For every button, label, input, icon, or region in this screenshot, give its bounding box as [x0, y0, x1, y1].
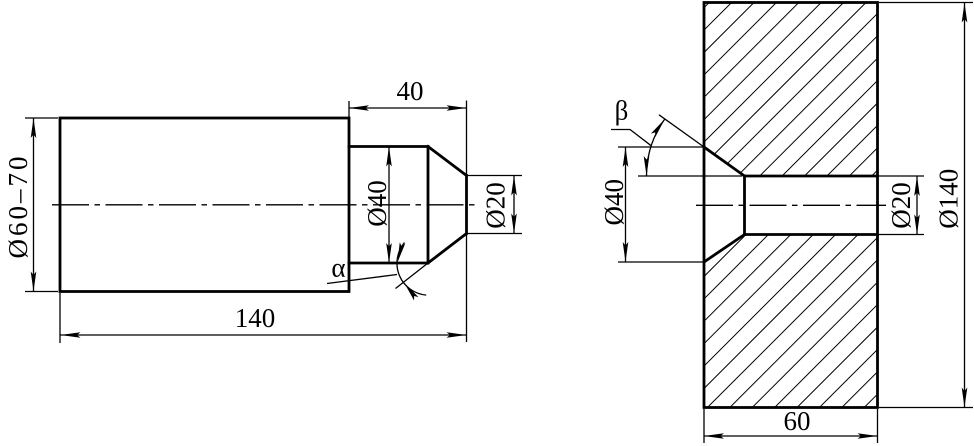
dimension 60 arrow right	[858, 433, 878, 439]
dimension D60-70: dimension line	[33, 118, 35, 292]
right view: block outline	[704, 3, 878, 408]
dimension D60-70 arrow bottom	[31, 272, 37, 292]
dimension 140 arrow right	[447, 332, 467, 338]
left view: cone tip	[428, 147, 467, 264]
dimension 60 arrow left	[704, 433, 724, 439]
dimension D20 right view: dimension line	[916, 176, 918, 235]
angle beta arrow lower	[644, 156, 650, 176]
svg-text:β: β	[615, 96, 629, 126]
svg-text:60: 60	[784, 406, 811, 436]
dimension D40 right view arrow bottom	[623, 242, 629, 262]
dimension D20 left view arrow bottom	[511, 214, 517, 234]
left view: small cylinder D40	[349, 147, 428, 264]
dimension D20 right view arrow bottom	[914, 215, 920, 235]
left view: centerline (axis)	[52, 204, 479, 206]
angle alpha: dimension arc	[397, 243, 426, 296]
angle beta: leader line	[611, 130, 651, 146]
dimension 60: extension lines	[704, 409, 878, 443]
svg-text:Ø60–70: Ø60–70	[3, 154, 33, 259]
svg-text:140: 140	[235, 303, 276, 333]
angle alpha arrow lower	[402, 281, 419, 300]
svg-text:Ø20: Ø20	[886, 182, 916, 229]
dimension D20 left view: dimension line	[513, 176, 515, 234]
dimension D20 right view: extension lines	[879, 176, 924, 235]
right view: countersink taper edges	[704, 147, 745, 262]
dimension D40 left view arrow bottom	[386, 243, 392, 263]
angle alpha arrow upper	[395, 242, 405, 263]
shared extension line at shaft tip	[466, 101, 468, 343]
dimension D140: extension lines	[879, 3, 973, 408]
angle beta arrow upper	[651, 117, 667, 137]
right view: hole bore edges	[745, 176, 878, 235]
dimension D40 right view arrow top	[623, 147, 629, 167]
dimension 40 arrow left	[349, 105, 369, 111]
dimension 40: extension line left	[348, 101, 350, 117]
dimension D40 left view arrow top	[386, 147, 392, 167]
dimension D20 right view arrow top	[914, 176, 920, 196]
dimension D140 arrow bottom	[962, 388, 968, 408]
angle alpha: leader line	[327, 275, 397, 284]
dimension D60-70 arrow top	[31, 118, 37, 138]
dimension D140: dimension line	[964, 3, 966, 408]
svg-text:Ø40: Ø40	[599, 179, 629, 226]
angle beta: taper line extension	[659, 115, 704, 147]
dimension D40 right view: extension lines	[618, 147, 703, 262]
dimension D20 left view: extension lines	[468, 176, 522, 234]
dimension D60-70: extension lines	[25, 118, 58, 292]
dimension D40 left view: dimension line	[388, 147, 390, 264]
dimension D140 arrow top	[962, 3, 968, 23]
dimension 140: dimension line	[61, 334, 467, 336]
dimension D40 right view: dimension line	[625, 147, 627, 262]
dimension 40: dimension line	[349, 107, 467, 109]
dimension 40 arrow right	[447, 105, 467, 111]
right view: centerline (hole axis)	[696, 204, 886, 206]
svg-text:Ø40: Ø40	[362, 180, 392, 227]
angle alpha: cone line extension	[396, 263, 429, 289]
dimension 140: extension line left	[59, 293, 61, 343]
svg-text:40: 40	[397, 76, 424, 106]
left view: stepped shaft outline	[60, 118, 349, 292]
svg-text:Ø140: Ø140	[933, 169, 963, 229]
dimension 60: dimension line	[704, 435, 878, 437]
svg-text:α: α	[331, 253, 345, 283]
angle beta: dimension arc	[647, 119, 665, 176]
dimension D20 left view arrow top	[511, 176, 517, 196]
svg-text:Ø20: Ø20	[481, 182, 511, 229]
dimension 140 arrow left	[61, 332, 81, 338]
angle beta: bore edge extension	[638, 175, 742, 177]
